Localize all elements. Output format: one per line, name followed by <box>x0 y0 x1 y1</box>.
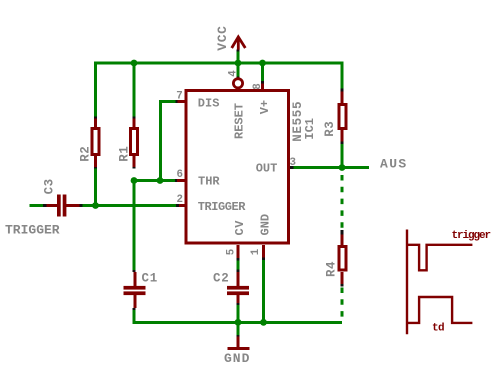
svg-text:V+: V+ <box>258 100 272 114</box>
svg-text:GND: GND <box>224 351 250 366</box>
svg-text:td: td <box>432 323 444 335</box>
svg-text:8: 8 <box>252 83 264 89</box>
svg-text:6: 6 <box>177 169 183 181</box>
svg-text:TRIGGER: TRIGGER <box>5 222 60 237</box>
svg-text:TRIGGER: TRIGGER <box>198 200 247 214</box>
svg-text:R2: R2 <box>79 146 93 162</box>
svg-text:trigger: trigger <box>452 230 491 242</box>
svg-text:GND: GND <box>259 214 273 236</box>
svg-text:CV: CV <box>233 220 247 236</box>
svg-text:R4: R4 <box>325 261 339 277</box>
svg-text:THR: THR <box>198 174 220 188</box>
svg-text:4: 4 <box>228 70 240 77</box>
svg-text:R1: R1 <box>118 146 132 162</box>
svg-text:C3: C3 <box>43 178 57 194</box>
svg-text:1: 1 <box>250 248 262 255</box>
svg-text:C1: C1 <box>142 272 159 286</box>
svg-text:AUS: AUS <box>380 156 408 171</box>
svg-text:3: 3 <box>290 157 296 169</box>
svg-text:R3: R3 <box>323 121 337 137</box>
svg-text:OUT: OUT <box>256 161 278 175</box>
svg-text:2: 2 <box>177 194 183 206</box>
svg-text:5: 5 <box>226 249 238 255</box>
svg-text:IC1: IC1 <box>303 118 317 140</box>
svg-text:C2: C2 <box>213 272 230 286</box>
svg-text:RESET: RESET <box>233 103 247 139</box>
svg-text:VCC: VCC <box>215 25 230 50</box>
svg-text:DIS: DIS <box>198 96 220 110</box>
svg-text:7: 7 <box>176 91 182 103</box>
